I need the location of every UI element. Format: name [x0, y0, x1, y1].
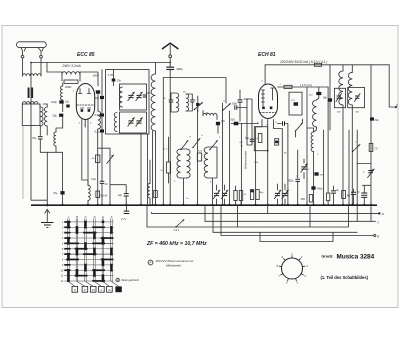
svg-text:14µ: 14µ: [118, 193, 123, 197]
svg-text:47µ: 47µ: [221, 120, 226, 123]
box 10,5: [197, 151, 203, 162]
wire bus line C: [205, 205, 380, 224]
capacitor 450p dark: [311, 186, 323, 190]
switch bank mid: [164, 139, 218, 151]
svg-text:30p: 30p: [375, 119, 380, 122]
svg-text:5,6µ: 5,6µ: [91, 178, 96, 181]
svg-text:2µ: 2µ: [335, 189, 339, 192]
resistor 7,5 right: [369, 144, 378, 152]
svg-text:100p: 100p: [51, 100, 57, 104]
label switch marks: [190, 135, 222, 139]
tube ECC85 U1: [76, 84, 94, 120]
coil 150: [148, 160, 150, 205]
svg-text:6,3µ: 6,3µ: [95, 113, 101, 117]
svg-text:500: 500: [231, 119, 236, 122]
label voltages: [254, 153, 319, 165]
capacitor 50p left edge: [245, 137, 254, 141]
svg-text:300p: 300p: [176, 67, 183, 71]
pin labels ECH81: [256, 81, 282, 127]
label b terminal: [396, 103, 398, 107]
wire verticals 323/328: [323, 87, 330, 205]
IF can 1: [334, 65, 345, 206]
label 180p mid: [206, 113, 209, 115]
FM tank 1: [169, 93, 179, 112]
pushbutton switch matrix: [61, 215, 114, 283]
svg-text:1,7Ω: 1,7Ω: [108, 73, 114, 77]
svg-text:E: E: [102, 215, 104, 219]
wire loop E with switch: [147, 205, 349, 232]
oscillator tank box: [289, 92, 302, 115]
tube socket diagram: [276, 252, 308, 285]
ground symbol: [41, 204, 54, 227]
svg-text:10p: 10p: [65, 101, 70, 104]
svg-text:ECH 81: ECH 81: [258, 52, 276, 58]
label U switch top: [194, 100, 226, 103]
svg-text:d: d: [377, 234, 379, 238]
resistor pair center: [234, 186, 247, 205]
FM input coil tall: [151, 63, 156, 206]
svg-text:25µ: 25µ: [31, 136, 37, 140]
pin labels ECC85: [73, 91, 98, 127]
tuner box outline: [106, 70, 150, 135]
osc coil A: [177, 149, 190, 205]
svg-text:D: D: [94, 215, 96, 219]
svg-text:Musica 3284: Musica 3284: [337, 254, 375, 261]
svg-text:17p: 17p: [117, 79, 122, 83]
capacitor 10n right of tube: [96, 90, 100, 111]
capacitor 17p top: [112, 70, 122, 86]
capacitor 2u: [331, 186, 339, 205]
wire right edge vertical with arrow: [389, 65, 397, 109]
svg-text:ZF = 460 kHz = 10,7 MHz: ZF = 460 kHz = 10,7 MHz: [146, 241, 207, 247]
osc coil right: [307, 128, 314, 205]
wire vertical 349: [348, 130, 350, 205]
wire branch 110 with trimmer: [98, 148, 114, 205]
svg-text:6,3µ: 6,3µ: [95, 130, 101, 134]
wire rect G: [260, 232, 333, 241]
svg-text:2,7v: 2,7v: [120, 217, 127, 221]
wire bus line F: [213, 205, 357, 232]
label 0,5M ladder: [239, 142, 243, 148]
capacitor 6,3p lower: [95, 129, 105, 133]
resistor 45 ohm: [301, 195, 313, 203]
capacitor small right below tube: [275, 139, 279, 145]
shield box with secondary: [22, 102, 40, 126]
capacitor 6,3p left column: [95, 113, 105, 117]
title Graetz Musica 3284: [322, 254, 375, 261]
capacitor 10p: [65, 101, 70, 108]
capacitor 30p left column: [95, 96, 105, 100]
wire 240V plate line: [47, 63, 81, 73]
wire ECH pins: [255, 120, 262, 206]
svg-text:M: M: [241, 146, 243, 148]
switch S2 + cap 100p: [222, 103, 247, 205]
wire plate out right: [278, 83, 329, 88]
coil right of tube: [97, 111, 101, 205]
capacitor 50p right: [278, 121, 289, 205]
svg-text:U: U: [117, 279, 119, 282]
capacitor 500p dark left of tube: [231, 119, 259, 126]
box pair 4,5: [250, 190, 264, 200]
wire tank to grid cap: [80, 72, 100, 86]
wire vertical 357: [356, 130, 358, 205]
AM gang section: [114, 112, 146, 133]
wire plate vertical 307: [306, 87, 308, 205]
wire tuner left column: [101, 70, 103, 177]
capacitor 14u: [110, 185, 129, 206]
svg-text:500p: 500p: [288, 180, 294, 183]
FM gang section: [119, 84, 151, 110]
tube ECH81 U2: [259, 65, 278, 119]
capacitor pair mid-right: [347, 189, 356, 205]
pushbuttons row: [69, 282, 122, 293]
wire B+ supply top: [265, 64, 389, 66]
switch S1: [194, 103, 203, 206]
FM dipole antenna: [162, 43, 178, 66]
wire stubs below bus: [238, 205, 268, 227]
ferrite core: [28, 88, 34, 99]
svg-text:Graetz: Graetz: [322, 255, 333, 259]
switch right of tube: [295, 119, 303, 137]
svg-text:45Ω: 45Ω: [301, 198, 306, 201]
svg-text:100p: 100p: [232, 103, 238, 106]
svg-text:B: B: [76, 215, 78, 219]
wire top feed line: [30, 62, 171, 64]
label osc values: [173, 181, 212, 184]
capacitor 25u: [31, 126, 63, 152]
resistor 0,1kW: [96, 191, 108, 198]
wire can2 feed: [352, 65, 372, 206]
svg-text:( 1,5 mA ): ( 1,5 mA ): [300, 83, 312, 87]
svg-text:350 Ω/V (Klemmenname bei: 350 Ω/V (Klemmenname bei: [156, 259, 194, 263]
svg-text:30p: 30p: [244, 97, 249, 101]
svg-text:Mittelwelle): Mittelwelle): [166, 264, 181, 268]
ground bus: [31, 204, 377, 206]
svg-text:ECC 85: ECC 85: [77, 52, 95, 58]
switch right lower: [352, 142, 360, 153]
wire bus line A: [152, 212, 384, 216]
label taste gedrueckt: [116, 278, 139, 282]
capacitor 47u dark: [216, 120, 226, 133]
wire left verticals: [23, 63, 47, 205]
trimmer pair 2: [274, 184, 288, 205]
capacitor 100p: [51, 100, 64, 111]
label can pins: [337, 112, 360, 114]
antenna transformer primary coil: [23, 74, 42, 76]
capacitor 300p: [166, 65, 183, 205]
svg-text:3 A 1: 3 A 1: [174, 229, 180, 232]
trimmer right 367: [363, 169, 374, 178]
wire bus line D: [221, 205, 379, 238]
capacitor 30p right: [370, 117, 379, 122]
coil 56: [47, 126, 63, 152]
FM tank 2: [186, 94, 194, 111]
svg-text:30µ: 30µ: [95, 96, 100, 100]
svg-text:0,1kW: 0,1kW: [100, 195, 108, 198]
label 30 tank: [163, 92, 186, 101]
svg-text:70µ: 70µ: [53, 191, 58, 195]
grid ladder left: [247, 99, 252, 145]
wire tube pin center: [84, 120, 86, 127]
svg-text:450p: 450p: [317, 188, 323, 191]
wire antenna leads: [23, 58, 42, 76]
AM loop antenna: [17, 42, 47, 58]
coil left of tube: [61, 83, 63, 100]
svg-text:180V: 180V: [93, 74, 101, 78]
wire link 163: [357, 163, 371, 165]
box on line 155: [154, 191, 158, 198]
label 1000p: [186, 198, 189, 200]
label misc right: [295, 169, 310, 178]
osc coil B: [204, 147, 217, 205]
note circled F: [148, 259, 194, 268]
oscillator shield box below tube: [254, 127, 268, 152]
capacitor 70u dark: [53, 153, 65, 206]
svg-text:(1. Teil des Schaltbildes): (1. Teil des Schaltbildes): [321, 275, 369, 280]
electrolytic 1u multi-bar: [357, 185, 371, 205]
svg-text:10p: 10p: [147, 92, 152, 95]
anode tank coil: [62, 72, 80, 89]
coupling coil horizontal: [203, 111, 217, 120]
svg-text:C: C: [85, 215, 87, 219]
capacitor 500p lower: [288, 150, 300, 205]
capacitor 30u left: [53, 113, 64, 128]
capacitor 2,7v below bus: [120, 205, 129, 221]
secondary coils right: [40, 104, 47, 126]
capacitor 50p mid right: [323, 65, 332, 130]
wire middle verticals: [140, 78, 164, 206]
wire center verticals: [222, 103, 242, 205]
resistor box 0,5M left: [160, 137, 170, 183]
svg-text:2W: 2W: [346, 195, 351, 198]
svg-text:30µ: 30µ: [53, 113, 58, 117]
wire fm top link: [163, 78, 226, 104]
trimmer mid right: [301, 159, 308, 179]
capacitor dark 316: [314, 172, 323, 176]
resistor 2W on 343.5: [342, 191, 351, 199]
svg-text:460Ω: 460Ω: [65, 85, 71, 89]
resistor 4,5 branch: [91, 155, 99, 163]
capacitor 5,6u: [91, 176, 108, 205]
svg-text:a: a: [382, 212, 384, 216]
osc coil upper right: [309, 87, 321, 132]
trimmer pair 1: [213, 185, 228, 205]
resistor in supply line: [315, 63, 322, 66]
trimmer small dark: [196, 96, 199, 112]
wire tube pin B with coil: [87, 120, 90, 206]
svg-text:-Taste gedrückt: -Taste gedrückt: [120, 278, 139, 282]
wire tube pin A: [82, 120, 88, 186]
svg-text:240V 3,2mA: 240V 3,2mA: [62, 64, 82, 68]
capacitor 30p mid: [238, 90, 249, 121]
svg-text:50p: 50p: [323, 97, 328, 100]
svg-text:Wellenschalter: Wellenschalter: [243, 150, 247, 169]
IF can 2: [348, 72, 365, 205]
subtitle: [321, 275, 369, 280]
